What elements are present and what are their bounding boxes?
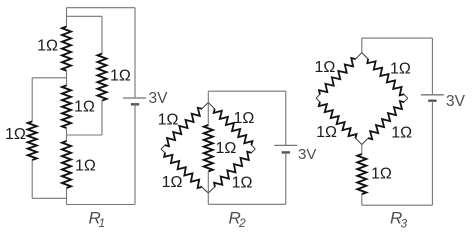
- resistor 1 ohm diamond bottom-right: [404, 98, 408, 102]
- svg-text:1Ω: 1Ω: [390, 60, 411, 77]
- wire middle branch lead: [101, 16, 103, 54]
- wire to node J2: [66, 128, 68, 142]
- svg-text:1Ω: 1Ω: [110, 68, 131, 85]
- wire middle resistor top lead: [207, 103, 209, 126]
- svg-text:1Ω: 1Ω: [316, 124, 337, 141]
- battery B1 short plate: [131, 103, 139, 105]
- wire top rail circuit 1: [67, 7, 136, 9]
- resistor 1 ohm (middle branch): [98, 54, 107, 101]
- svg-text:1Ω: 1Ω: [232, 175, 253, 192]
- svg-text:1Ω: 1Ω: [158, 112, 179, 129]
- wire top rail circuit 3: [362, 37, 433, 39]
- node J2 horizontal wire: [67, 134, 103, 136]
- svg-text:1Ω: 1Ω: [74, 99, 95, 116]
- wire right rail top circuit 3: [431, 38, 433, 95]
- resistor 1 ohm (top left, R1 network): [62, 27, 71, 71]
- wire right rail bottom circuit 1: [134, 104, 136, 204]
- resistor 1 ohm bridge middle: [204, 125, 213, 172]
- wire bottom resistor top lead: [361, 145, 363, 155]
- wire top lead circuit 2: [207, 91, 209, 102]
- wire middle branch bottom lead: [101, 100, 103, 135]
- wire second rail circuit 1: [67, 15, 103, 17]
- svg-text:1Ω: 1Ω: [391, 125, 412, 142]
- svg-text:1Ω: 1Ω: [37, 37, 58, 54]
- wire resistor bottom to bottom rail: [66, 188, 68, 205]
- svg-text:3V: 3V: [446, 93, 466, 110]
- svg-text:1Ω: 1Ω: [371, 166, 392, 183]
- svg-text:1Ω: 1Ω: [75, 158, 96, 175]
- svg-text:2: 2: [238, 216, 246, 230]
- wire far-left branch lead: [31, 78, 33, 122]
- wire right rail top circuit 2: [285, 91, 287, 145]
- wire left bottom horizontal: [32, 197, 66, 199]
- svg-text:1Ω: 1Ω: [234, 110, 255, 127]
- svg-text:1: 1: [99, 216, 106, 230]
- resistor 1 ohm bridge bottom-left: [161, 149, 166, 153]
- resistor 1 ohm (bottom middle): [62, 141, 71, 188]
- resistor 1 ohm diamond bottom-left: [316, 98, 320, 102]
- resistor 1 ohm bridge bottom-right: [251, 149, 256, 153]
- node J1 horizontal wire: [32, 77, 66, 79]
- resistor 1 ohm (far left): [28, 121, 37, 160]
- wire bottom resistor bottom lead: [361, 194, 363, 206]
- resistor 1 ohm (below J1): [62, 85, 71, 128]
- svg-text:3V: 3V: [149, 90, 169, 107]
- resistor 1 ohm diamond top-right: [362, 53, 369, 60]
- battery B2 long plate: [274, 144, 297, 146]
- wire middle resistor bottom lead: [207, 171, 209, 193]
- wire right rail top circuit 1: [134, 8, 136, 98]
- battery B2 short plate: [282, 151, 290, 153]
- wire far-left bottom lead: [31, 160, 33, 199]
- svg-text:3V: 3V: [298, 146, 316, 163]
- svg-text:1Ω: 1Ω: [162, 174, 183, 191]
- svg-text:1Ω: 1Ω: [315, 59, 336, 76]
- resistor 1 ohm bridge top-right: [208, 103, 215, 110]
- svg-text:3: 3: [401, 217, 408, 231]
- wire bottom rail circuit 3: [362, 204, 433, 206]
- resistor 1 ohm bridge top-left: [202, 103, 209, 110]
- svg-text:1Ω: 1Ω: [5, 126, 26, 143]
- wire bottom rail circuit 1: [67, 204, 136, 206]
- wire right rail bottom circuit 2: [285, 152, 287, 204]
- resistor 1 ohm diamond top-left: [355, 53, 362, 60]
- resistor 1 ohm bottom branch circuit 3: [357, 154, 366, 194]
- wire top rail circuit 2: [208, 90, 285, 92]
- wire right rail bottom circuit 3: [431, 101, 433, 206]
- wire from resistor to node J1: [66, 70, 68, 86]
- svg-text:1Ω: 1Ω: [216, 140, 237, 157]
- battery B3 long plate: [421, 94, 444, 96]
- wire bottom rail circuit 2: [208, 203, 285, 205]
- battery B1 long plate: [123, 97, 146, 99]
- battery B3 short plate: [428, 99, 436, 101]
- wire top lead circuit 3: [361, 38, 363, 53]
- wire left branch lead top: [66, 8, 68, 27]
- wire bottom lead circuit 2: [207, 193, 209, 204]
